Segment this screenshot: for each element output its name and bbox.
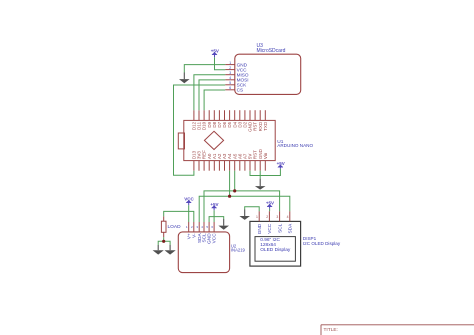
- ground under LOAD right: [165, 245, 176, 255]
- wire SD MISO to D12: [194, 75, 225, 110]
- svg-text:Vin: Vin: [263, 152, 268, 159]
- junction SDA-A4 node: [228, 195, 231, 198]
- svg-text:6: 6: [229, 86, 231, 90]
- svg-text:TXD: TXD: [263, 121, 268, 131]
- svg-text:ARDUINO NANO: ARDUINO NANO: [277, 143, 313, 148]
- ground under Arduino GND: [255, 179, 266, 190]
- power +5V for OLED: [266, 201, 274, 209]
- wire LOAD bottom to junction: [163, 237, 165, 241]
- wire SDA bus: [199, 196, 290, 222]
- ground for OLED GND: [239, 210, 250, 220]
- svg-text:CS: CS: [237, 88, 244, 93]
- wire OLED GND to ground: [245, 207, 260, 212]
- wire junction to right ground: [164, 241, 170, 245]
- IC U3 MicroSDcard module: [225, 43, 301, 95]
- svg-text:1: 1: [229, 61, 231, 65]
- svg-text:2: 2: [229, 66, 231, 70]
- svg-text:GND: GND: [257, 223, 262, 234]
- wire VCC to INA V+: [188, 205, 190, 222]
- svg-text:LOAD: LOAD: [168, 224, 182, 230]
- wire LOAD top to INA V-: [164, 211, 194, 222]
- wire SD MOSI to D11: [199, 80, 225, 110]
- svg-text:0.96" I2C: 0.96" I2C: [260, 237, 280, 243]
- svg-text:OLED Display: OLED Display: [260, 247, 291, 253]
- svg-text:VCC: VCC: [212, 233, 217, 244]
- wire GND pin to ground: [259, 171, 261, 179]
- wire SD VCC to +5V: [215, 57, 226, 69]
- display DISP1 I2C OLED: [250, 211, 341, 266]
- svg-text:I2C OLED Display: I2C OLED Display: [303, 241, 341, 246]
- junction SCL-A5 node: [233, 189, 236, 192]
- resistor LOAD: [161, 216, 181, 237]
- svg-text:3: 3: [229, 71, 231, 75]
- svg-text:2: 2: [266, 215, 268, 219]
- wire SD GND to ground: [184, 65, 225, 73]
- svg-text:V-: V-: [191, 233, 196, 238]
- wire A4 to SDA bus: [229, 171, 231, 197]
- wire SD CS to D10: [204, 90, 225, 110]
- wire A5 to SCL bus: [234, 171, 236, 191]
- ground for INA GND: [218, 219, 229, 230]
- ground under LOAD left: [153, 245, 164, 255]
- power +5V for Arduino 5V pin: [277, 161, 285, 169]
- title block frame: [321, 325, 474, 335]
- wire SD SCK loop to D13: [174, 85, 226, 175]
- svg-text:1: 1: [256, 215, 258, 219]
- wire 5V pin to +5V: [250, 169, 280, 176]
- svg-text:TITLE:: TITLE:: [324, 327, 338, 333]
- ground near SD card: [179, 73, 190, 84]
- wire +5V to INA VCC: [213, 210, 215, 222]
- power +5V for INA219: [210, 202, 218, 210]
- power +5V for SD card: [211, 49, 219, 58]
- wire INA GND to ground: [209, 217, 224, 222]
- svg-text:INA219: INA219: [231, 248, 246, 253]
- svg-text:4: 4: [287, 215, 289, 219]
- wire +5V to OLED VCC: [269, 209, 271, 212]
- IC U2 INA219 current sensor: [178, 222, 245, 273]
- junction LOAD ground node: [162, 240, 165, 243]
- svg-text:4: 4: [229, 76, 231, 80]
- IC U1 ARDUINO NANO: [178, 110, 313, 171]
- power VCC for INA V+: [184, 197, 194, 206]
- wire junction to left ground: [158, 241, 164, 245]
- svg-text:SDA: SDA: [288, 223, 293, 234]
- wire SCL bus: [204, 191, 280, 222]
- svg-text:VCC: VCC: [267, 223, 272, 234]
- svg-text:128x64: 128x64: [260, 242, 276, 248]
- svg-text:3: 3: [276, 215, 278, 219]
- svg-text:MicroSDcard: MicroSDcard: [257, 48, 286, 54]
- svg-text:5: 5: [229, 81, 231, 85]
- svg-text:SCL: SCL: [277, 223, 282, 233]
